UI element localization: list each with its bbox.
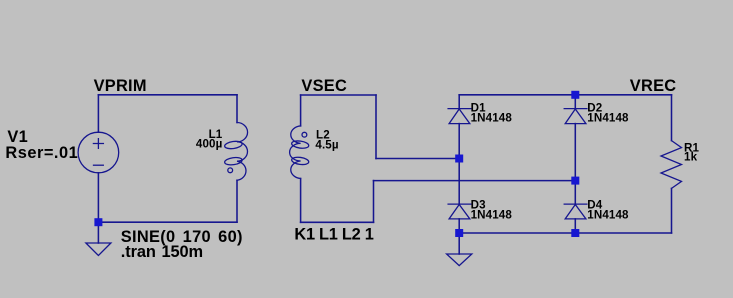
svg-text:1N4148: 1N4148 (587, 208, 629, 221)
svg-text:1N4148: 1N4148 (471, 208, 513, 221)
svg-text:K1 L1 L2 1: K1 L1 L2 1 (294, 225, 373, 243)
svg-text:Rser=.01: Rser=.01 (5, 144, 78, 162)
svg-text:1N4148: 1N4148 (471, 111, 513, 124)
svg-text:400µ: 400µ (196, 138, 223, 151)
svg-text:VPRIM: VPRIM (94, 77, 147, 95)
svg-text:4.5µ: 4.5µ (315, 138, 338, 151)
svg-text:1k: 1k (684, 151, 698, 164)
svg-text:VREC: VREC (630, 77, 677, 95)
svg-text:.tran 150m: .tran 150m (121, 243, 203, 261)
svg-text:1N4148: 1N4148 (587, 111, 629, 124)
svg-text:VSEC: VSEC (301, 77, 347, 95)
